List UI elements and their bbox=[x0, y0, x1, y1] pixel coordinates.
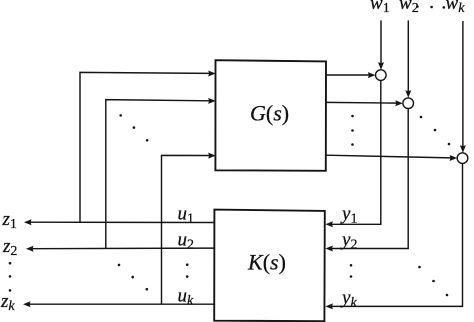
dots between S2 and S3 (diagonal) bbox=[420, 116, 423, 119]
wire u2 feedback: up from line u2 into G input 2 bbox=[106, 100, 210, 249]
svg-text:yk: yk bbox=[340, 288, 357, 311]
svg-text:w2: w2 bbox=[399, 0, 419, 16]
dots between u2 and uk (vertical) bbox=[186, 263, 189, 266]
wire yk: from S3 down then left into K input 3 bbox=[332, 163, 463, 306]
svg-text:uk: uk bbox=[178, 286, 195, 309]
wire u1 feedback: up from line u1 into G input 1 bbox=[80, 72, 209, 222]
wire y1: from S1 down then left into K input 1 bbox=[332, 80, 381, 224]
dots between w2 and wk (top) bbox=[416, 5, 419, 8]
wire w2 vertical into S2 bbox=[407, 20, 409, 91]
summing junction S1 bbox=[376, 70, 387, 81]
dots lower right diagonal bbox=[418, 266, 421, 269]
svg-text:y1: y1 bbox=[340, 204, 357, 227]
svg-text:w1: w1 bbox=[370, 0, 390, 16]
dots between G outputs 2 and 3 (vertical) bbox=[351, 115, 354, 118]
svg-text:K(s): K(s) bbox=[247, 250, 286, 275]
block K(s) bbox=[214, 210, 325, 322]
wire z2/u2 horizontal from K left to output arrow z2 bbox=[32, 247, 215, 250]
svg-text:G(s): G(s) bbox=[250, 101, 289, 126]
wire G output 2 to summing junction S2 bbox=[326, 101, 397, 104]
dots between y2 and yk (vertical) bbox=[350, 264, 353, 267]
svg-text:zk: zk bbox=[0, 291, 15, 314]
svg-text:z1: z1 bbox=[2, 209, 17, 232]
svg-text:z2: z2 bbox=[2, 236, 17, 259]
summing junction S2 bbox=[403, 98, 414, 109]
svg-text:wk: wk bbox=[446, 0, 466, 16]
wire y2: from S2 down then left into K input 2 bbox=[332, 109, 408, 249]
block G(s) bbox=[215, 60, 326, 171]
dots lower middle diagonal bbox=[118, 264, 121, 267]
svg-text:u1: u1 bbox=[178, 204, 195, 227]
wire G output 1 to summing junction S1 bbox=[326, 74, 369, 76]
svg-text:y2: y2 bbox=[340, 230, 357, 253]
wire zk/uk horizontal from K left to output arrow zk bbox=[29, 303, 215, 305]
summing junction S3 bbox=[457, 153, 468, 164]
dots between z2 and zk (left vertical) bbox=[9, 262, 12, 265]
wire wk vertical into S3 bbox=[462, 21, 464, 146]
wire w1 vertical into S1 bbox=[380, 20, 382, 63]
dots between G inputs (upper left diagonal) bbox=[119, 114, 122, 117]
wire z1/u1 horizontal from K left to output arrow z1 bbox=[30, 221, 215, 223]
svg-text:u2: u2 bbox=[178, 230, 195, 253]
wire uk feedback: up from line uk into G input 3 bbox=[162, 155, 210, 304]
wire G output 3 to summing junction S3 bbox=[326, 155, 451, 158]
